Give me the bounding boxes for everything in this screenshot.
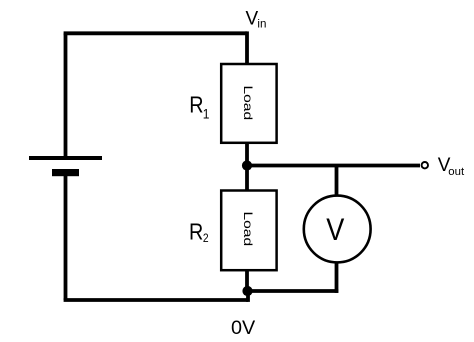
wire jog up to bottom junction [246,291,250,302]
wire Vin node down to R1 top [245,31,249,65]
battery B1 negative plate [52,169,79,176]
svg-text:V: V [326,212,344,247]
junction node at bottom rail [242,286,252,296]
wire battery negative down to bottom rail [64,176,68,300]
svg-text:0V: 0V [231,317,256,339]
svg-text:R1: R1 [189,92,209,121]
svg-text:Vin: Vin [246,8,267,30]
battery B1 positive plate [29,156,102,160]
wire bottom junction to voltmeter bottom [248,289,339,293]
voltmeter V body [304,196,371,263]
svg-text:Load: Load [241,211,255,246]
svg-text:R2: R2 [189,219,209,245]
resistor R2 load box [221,191,276,271]
resistor R1 load box [221,64,276,143]
wire voltmeter bottom lead [335,260,339,293]
wire R2 bottom to bottom junction [245,270,249,291]
wire junction to Vout terminal [247,164,420,168]
wire bottom 0V rail [64,298,248,302]
wire voltmeter top lead [335,166,339,199]
wire top horizontal Vin rail [64,31,247,35]
wire battery positive to top-left corner [64,33,68,158]
wire R1 bottom through junction to R2 top [245,143,249,191]
junction node between R1 and R2 [242,160,252,170]
svg-text:Vout: Vout [438,155,465,178]
svg-text:Load: Load [241,85,255,120]
Vout open terminal [422,162,428,168]
